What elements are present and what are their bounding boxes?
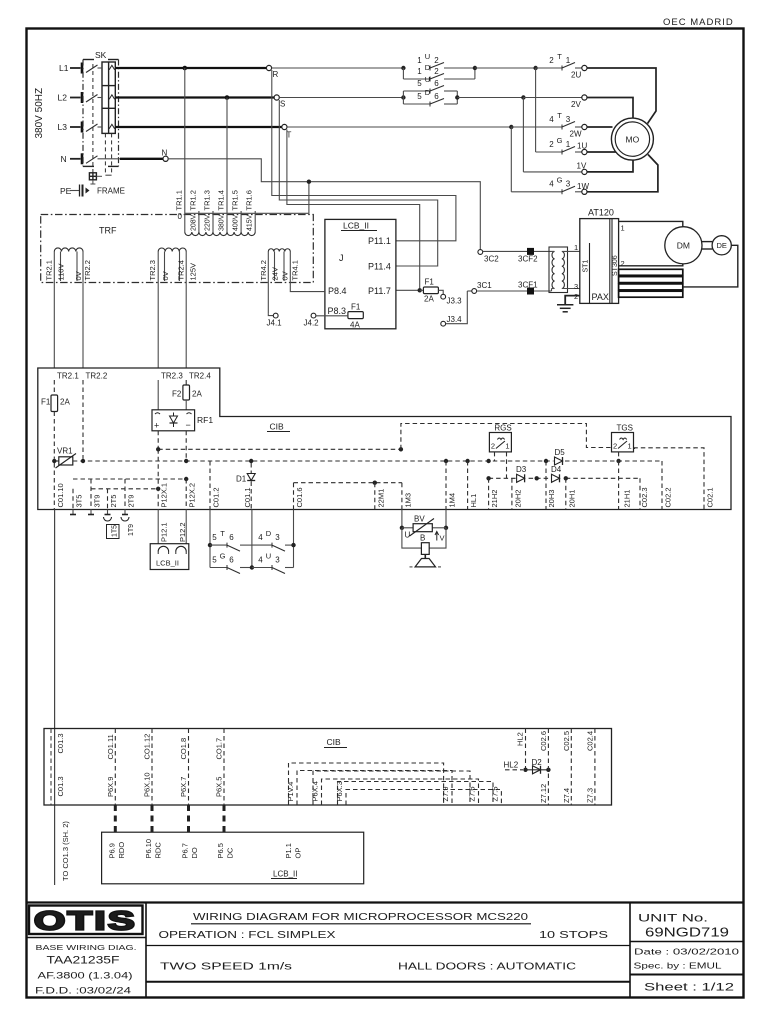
svg-text:C01.3: C01.3 [56,733,65,753]
connector column HL2 [516,729,526,770]
contact 4D3 [252,529,296,551]
lamp feed HL2 with diode D2 [504,758,551,774]
svg-text:20H1: 20H1 [567,490,576,508]
ground [557,305,573,312]
svg-text:22M1: 22M1 [376,489,385,508]
node R [266,65,278,79]
svg-text:TWO SPEED 1m/s: TWO SPEED 1m/s [160,962,292,973]
svg-text:6: 6 [229,533,234,542]
svg-text:1T9: 1T9 [128,524,135,536]
svg-text:4: 4 [549,180,554,189]
svg-text:N: N [61,154,67,164]
wire primary common 0 to N [185,182,309,214]
encoder DE [712,236,731,255]
svg-text:Z7.5: Z7.5 [491,786,500,801]
svg-text:+: + [154,421,159,431]
svg-text:J4.1: J4.1 [267,319,283,328]
svg-text:P12X.1: P12X.1 [160,483,169,508]
wire bus E (T5/T9 to P12X) [73,477,188,491]
svg-text:OEC MADRID: OEC MADRID [663,17,734,28]
svg-text:UNIT No.: UNIT No. [638,913,708,925]
svg-text:2: 2 [491,442,495,451]
wire AT120 pin1 to DM [619,221,683,226]
drive unit AT120 [574,208,625,304]
svg-text:F1: F1 [41,398,51,407]
svg-text:2T9: 2T9 [127,495,136,508]
wire TR4.1 to P8.4 [290,290,325,292]
svg-text:1: 1 [417,67,422,76]
svg-text:6: 6 [229,555,234,564]
svg-text:P6X.4: P6X.4 [311,781,320,801]
wire bus D (C01.6/22M1/1M3) [294,481,402,485]
svg-text:3C1: 3C1 [477,281,492,290]
svg-text:3: 3 [574,282,578,291]
node J4.2 [304,313,348,327]
svg-text:3: 3 [275,533,280,542]
connector column C02.5/Z7.4 [562,729,572,806]
svg-text:PAX: PAX [592,292,609,302]
svg-text:2A: 2A [192,390,202,399]
svg-text:1: 1 [505,442,509,451]
svg-text:P6X.3: P6X.3 [335,781,344,801]
connector bar 3 [619,269,683,275]
svg-text:0V: 0V [281,271,290,280]
svg-text:T: T [557,111,562,120]
PE frame symbol + FRAME label [70,185,125,197]
svg-text:OP: OP [294,848,303,859]
svg-text:F2: F2 [172,390,182,399]
svg-text:N: N [162,149,168,158]
svg-text:TR2.4: TR2.4 [177,260,186,280]
contact 4G3 [511,127,589,194]
svg-text:P6X.10: P6X.10 [143,772,152,797]
date / spec rows [630,947,743,975]
svg-text:R: R [273,70,279,79]
transformer winding TR2 (110V) [45,248,92,368]
wire 1W to motor [587,155,658,192]
svg-text:P6X.5: P6X.5 [215,777,224,797]
svg-text:U: U [425,52,430,61]
svg-text:F.D.D. :03/02/24: F.D.D. :03/02/24 [35,986,131,996]
svg-text:Sheet : 1/12: Sheet : 1/12 [644,982,734,994]
svg-text:2A: 2A [424,295,434,304]
svg-text:TR2.2: TR2.2 [86,372,108,381]
svg-text:C02.3: C02.3 [640,487,649,507]
svg-text:RDO: RDO [117,842,126,859]
svg-text:P11.7: P11.7 [368,286,391,296]
title text [191,912,531,924]
buzzer horn [410,554,442,567]
svg-text:CO1.12: CO1.12 [143,734,152,760]
svg-text:L1: L1 [59,63,69,73]
svg-text:DC: DC [226,847,235,858]
svg-text:HALL DOORS : AUTOMATIC: HALL DOORS : AUTOMATIC [398,962,576,973]
svg-text:HL2: HL2 [516,732,525,746]
svg-text:P6.7: P6.7 [181,843,190,858]
svg-text:C02.1: C02.1 [706,487,715,507]
svg-text:1M4: 1M4 [448,493,457,508]
svg-text:TRF: TRF [99,226,117,236]
wire 2U to motor [587,68,656,124]
svg-text:0: 0 [178,212,183,221]
svg-text:2U: 2U [571,71,581,80]
svg-text:TR1.3: TR1.3 [203,190,212,210]
wire SK row stubs [98,68,121,159]
svg-text:208V: 208V [190,214,197,231]
svg-text:TR2.1: TR2.1 [57,372,79,381]
svg-text:24V: 24V [271,267,280,280]
svg-text:J3.4: J3.4 [447,315,463,324]
node 1W terminal [582,189,587,194]
svg-text:2: 2 [574,292,578,301]
wire DE return to bar 5 [683,245,738,287]
svg-text:TR1.1: TR1.1 [174,190,183,210]
connector column C02.6/Z7.12 [539,729,549,806]
node 1U terminal [582,149,587,154]
svg-text:380V: 380V [219,214,226,231]
wire 2W to motor [587,126,613,128]
PE terminal square [89,173,102,184]
svg-text:TO CO1.3 (SH. 2): TO CO1.3 (SH. 2) [61,821,70,881]
connector column CO1.8/P6X.7 [179,729,189,806]
relay board CIB enclosure [38,368,731,510]
svg-text:C01.3: C01.3 [56,776,65,796]
svg-text:U: U [425,75,430,84]
svg-text:DO: DO [190,847,199,858]
motor MO [611,118,653,160]
svg-text:L3: L3 [58,122,68,132]
svg-text:2: 2 [613,442,617,451]
svg-text:AT120: AT120 [588,208,614,218]
contact 5D6 (branch below) [403,88,459,107]
label CIB [267,422,290,432]
svg-text:U: U [266,551,271,560]
svg-text:P6.5: P6.5 [216,843,225,858]
svg-text:SK: SK [95,50,107,60]
contact 3CF1 [477,281,552,295]
svg-text:2: 2 [549,56,554,65]
connector column CO1.7/P6X.5 [215,729,225,806]
svg-text:1: 1 [574,243,578,252]
wire L1 to R [115,66,266,71]
controller LCB_II (bottom) [102,832,364,884]
svg-text:OPERATION : FCL SIMPLEX: OPERATION : FCL SIMPLEX [159,930,336,941]
node 1V terminal [582,169,587,174]
svg-text:400V: 400V [233,214,240,231]
svg-text:10 STOPS: 10 STOPS [539,930,608,941]
contact 5T6 [208,529,252,551]
svg-text:1: 1 [417,56,422,65]
svg-text:S: S [280,100,285,109]
svg-text:L2: L2 [58,93,68,103]
wire bus B (main dashed bus) [52,431,662,510]
svg-text:D: D [425,88,431,97]
svg-text:F1: F1 [425,278,435,287]
wire TR2.3 column [157,380,159,410]
svg-text:1: 1 [621,224,625,233]
svg-text:0V: 0V [74,271,83,280]
svg-text:4: 4 [258,533,263,542]
svg-text:1: 1 [566,140,571,149]
svg-text:V: V [440,534,445,543]
svg-text:B: B [420,534,425,543]
svg-text:D: D [425,63,431,72]
svg-text:TGS: TGS [617,424,633,433]
svg-text:D3: D3 [516,465,527,474]
svg-text:DE: DE [716,241,726,250]
svg-text:DM: DM [677,241,690,251]
node T [282,124,292,139]
svg-text:0V: 0V [161,271,170,280]
contact 2G1 [536,68,588,155]
node 3C1 [467,281,492,293]
fuse F1 2A [420,278,439,304]
svg-text:D5: D5 [555,448,566,457]
svg-text:5: 5 [212,555,217,564]
svg-text:69NGD719: 69NGD719 [645,925,729,940]
wire bus A (RF1+ to RGS/TGS) [156,424,612,452]
contact 5U6 (branch above) [403,75,457,98]
svg-text:21H2: 21H2 [490,490,499,508]
svg-text:3: 3 [566,180,571,189]
wire R branch to 2T1/2G1 [475,66,562,70]
contact 5G6 [210,551,254,573]
svg-text:P1V.4: P1V.4 [286,782,295,802]
svg-text:OTIS: OTIS [34,906,137,936]
svg-text:BV: BV [414,515,425,524]
rectifier RF1 [152,410,213,431]
svg-text:FRAME: FRAME [97,187,125,196]
node 2V terminal [571,95,587,109]
svg-text:1: 1 [566,56,571,65]
main switch SK [83,50,119,175]
svg-text:P1.1: P1.1 [284,843,293,858]
contact 4T3 [549,111,582,139]
node S [274,95,285,109]
svg-text:HL1: HL1 [469,494,478,508]
transformer winding TR2 (125V) [148,248,197,368]
wire RGS pins to buses [495,452,507,478]
node 3C2 [478,250,499,264]
cable P1V.4 to Z7.9 [286,763,452,805]
svg-text:2A: 2A [60,398,70,407]
connector column CO1.11/P6X.9 [106,729,116,806]
svg-text:Z7.3: Z7.3 [585,788,594,803]
svg-text:BASE WIRING DIAG.: BASE WIRING DIAG. [36,943,137,952]
wire S to contactor group [279,95,405,99]
svg-text:CO1.8: CO1.8 [179,738,188,760]
svg-text:TR2.1: TR2.1 [45,260,54,280]
node J3.3 [438,290,462,305]
label CIB (bottom) [324,737,347,748]
speed row [146,962,630,982]
varistor VR1 [56,447,77,469]
connector column CO1.12/P6X.10 [143,729,153,806]
wire R to contactor group [272,66,406,70]
transformer ST isolation [549,247,580,293]
svg-text:T: T [220,529,225,538]
main switch SK input stubs [70,63,98,165]
svg-text:C02.4: C02.4 [585,731,594,751]
svg-text:C01.1: C01.1 [243,487,252,507]
svg-text:4: 4 [549,115,554,124]
svg-text:LCB_II: LCB_II [343,221,369,231]
svg-text:Z7.9: Z7.9 [441,786,450,801]
svg-text:P11.4: P11.4 [368,262,391,272]
fuse F1 4A (inside LCB_II) [348,303,363,330]
relay TGS [612,424,634,452]
svg-text:21H1: 21H1 [623,490,632,508]
connector columns with labels [54,449,714,509]
svg-text:4A: 4A [350,321,360,330]
svg-text:AF.3800 (1.3.04): AF.3800 (1.3.04) [38,971,133,981]
svg-text:LCB_II: LCB_II [156,559,179,568]
wire pin2 to ground [565,296,580,305]
transformer primary winding TR1 taps [174,68,255,236]
svg-text:PE: PE [60,186,72,196]
contact 2T1 [549,52,582,80]
wire T to 4T3 [287,125,562,129]
svg-text:D: D [266,529,272,538]
transformer winding TR4 (24V) [259,249,300,314]
diode D4 [551,465,562,483]
wire 1U to motor [587,151,616,153]
connector bar 6 [619,291,683,297]
svg-text:P8.4: P8.4 [328,286,347,296]
svg-text:CIB: CIB [327,737,342,747]
svg-text:380V 50HZ: 380V 50HZ [34,88,45,139]
operation row [146,930,630,946]
svg-text:−: − [186,420,191,430]
wire bus C (diode row) [486,476,640,509]
unit number [630,913,743,942]
node junction P11.7/F1 [418,288,422,292]
cable P6X.5 to LCB_II [223,805,226,832]
cable P6X.4 to Z7.6 [311,771,479,805]
svg-text:J3.3: J3.3 [447,297,463,306]
svg-text:4: 4 [258,555,263,564]
diode D1 [236,463,255,510]
svg-text:TR4.2: TR4.2 [259,260,268,280]
svg-text:3: 3 [275,555,280,564]
svg-text:Z7.4: Z7.4 [562,788,571,803]
svg-text:Z7.12: Z7.12 [539,784,548,803]
svg-text:6: 6 [434,79,439,88]
svg-text:P6X.9: P6X.9 [106,777,115,797]
coupling DM-DE [702,242,713,249]
diode D5 [555,448,566,465]
svg-text:TR1.4: TR1.4 [217,190,226,210]
wire S to 2V and 1V [457,95,584,99]
svg-text:415V: 415V [247,214,254,231]
svg-text:RDC: RDC [154,842,163,859]
resistor B with arrow V [402,528,446,555]
svg-text:T: T [557,52,562,61]
svg-text:5: 5 [417,92,422,101]
svg-text:D4: D4 [551,465,562,474]
title block left texts [35,943,137,996]
cable P6X.10 to LCB_II [151,805,154,832]
wire N routing to 3C2 [168,159,480,250]
cable P6X.7 to LCB_II [187,805,190,832]
svg-text:P6.9: P6.9 [107,843,116,858]
wire C01.3 down to sheet 2 [54,510,56,886]
contact 1U2 [417,52,475,71]
svg-text:C02.5: C02.5 [562,731,571,751]
node 2U terminal [582,65,587,70]
svg-text:2: 2 [434,67,439,76]
wire 1V to motor [587,160,633,172]
svg-text:2W: 2W [570,130,582,139]
labels C01.3 [50,729,52,806]
varistor BV [400,510,449,540]
svg-text:2: 2 [434,56,439,65]
svg-text:TR2.3: TR2.3 [161,372,183,381]
svg-text:CIB: CIB [270,422,285,432]
svg-text:3CF2: 3CF2 [518,255,538,264]
svg-text:P11.1: P11.1 [368,236,391,246]
svg-text:TR2.4: TR2.4 [189,372,211,381]
svg-text:J4.2: J4.2 [304,319,320,328]
svg-text:F1: F1 [351,303,361,312]
fuse F2 2A [172,380,202,410]
svg-text:TAA21235F: TAA21235F [47,955,120,967]
wire 2V to motor [587,98,633,118]
node J4.1 [267,313,283,327]
svg-text:3C2: 3C2 [484,255,499,264]
svg-text:G: G [220,551,226,560]
svg-text:125V: 125V [189,263,198,281]
title block [27,903,744,998]
svg-text:2T5: 2T5 [109,495,118,508]
svg-text:1: 1 [628,442,632,451]
node N terminal [162,149,169,162]
motor DM [665,227,702,264]
svg-text:TR2.3: TR2.3 [148,260,157,280]
plug 1T9 [121,510,135,537]
svg-text:C01.2: C01.2 [212,487,221,507]
transformer TRF enclosure [41,215,314,283]
node 2W terminal [582,124,587,129]
connector column C02.4/Z7.3 [585,729,595,806]
wire TGS pins [619,448,704,510]
svg-text:MO: MO [626,134,640,144]
svg-text:RGS: RGS [494,424,511,433]
logo OTIS [27,906,147,938]
svg-text:P6X.7: P6X.7 [179,777,188,797]
svg-text:5: 5 [417,79,422,88]
svg-text:3T5: 3T5 [75,495,84,508]
contact 3CF2 [483,248,552,264]
svg-text:P6.10: P6.10 [144,839,153,859]
svg-text:TR1.2: TR1.2 [188,190,197,210]
svg-text:Date : 03/02/2010: Date : 03/02/2010 [634,947,739,957]
plug 1T5 [104,510,120,539]
svg-text:P12X.2: P12X.2 [188,483,197,508]
svg-text:G: G [557,136,563,145]
cable P6X.3 to Z7.5 [335,781,501,805]
svg-text:ST1: ST1 [583,260,590,273]
svg-text:C01.10: C01.10 [56,483,65,507]
svg-text:3CF1: 3CF1 [518,281,538,290]
svg-text:TR1.6: TR1.6 [245,190,254,210]
cable P6X.9 to LCB_II [114,805,117,832]
node J3.4 [441,291,467,326]
controller LCB_II (P12 plug) [150,510,189,570]
svg-text:P12.1: P12.1 [160,522,169,542]
connector stubs 3T5 3T9 [70,510,94,515]
svg-text:CO1.7: CO1.7 [215,738,224,760]
